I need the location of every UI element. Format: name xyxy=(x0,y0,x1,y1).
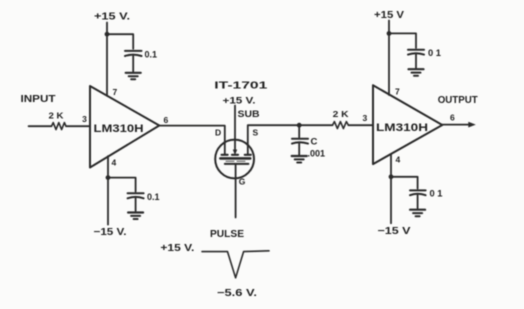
resistor R2 2K xyxy=(333,122,349,129)
wire resistor to pin3 xyxy=(66,125,90,127)
ground (C2) xyxy=(128,213,143,220)
svg-text:6: 6 xyxy=(164,115,169,125)
capacitor C3 .001 xyxy=(292,138,308,140)
svg-text:INPUT: INPUT xyxy=(21,94,56,105)
svg-text:2 K: 2 K xyxy=(49,111,65,121)
wire Q1 source to node xyxy=(248,125,299,154)
svg-text:LM310H: LM310H xyxy=(94,123,144,135)
wire pin4 down xyxy=(107,156,109,224)
svg-text:4: 4 xyxy=(396,155,401,165)
svg-text:+15 V.: +15 V. xyxy=(160,243,194,254)
capacitor C5 0.1 xyxy=(410,189,426,191)
ground (C4) xyxy=(409,69,424,76)
op-amp U1 LM310H xyxy=(90,86,159,168)
svg-text:0 1: 0 1 xyxy=(430,189,443,199)
svg-text:6: 6 xyxy=(450,113,455,123)
wire U1 output to Q1 drain xyxy=(159,126,225,155)
svg-text:−5.6 V.: −5.6 V. xyxy=(217,288,257,299)
svg-text:IT-1701: IT-1701 xyxy=(214,81,268,92)
svg-text:D: D xyxy=(215,128,221,138)
faint line xyxy=(226,160,246,162)
wire V+ branch to C4 xyxy=(389,33,416,48)
svg-text:S: S xyxy=(253,128,259,138)
channel bar xyxy=(220,157,250,160)
svg-text:SUB: SUB xyxy=(238,109,261,119)
wire node to R2 xyxy=(299,124,332,126)
svg-text:+15 V.: +15 V. xyxy=(223,96,256,107)
transistor Q1 body (MOSFET) xyxy=(215,140,254,179)
op-amp U2 LM310H xyxy=(373,85,442,164)
wire gate lead xyxy=(235,164,237,218)
wire node to C3 xyxy=(298,125,300,137)
svg-text:OUTPUT: OUTPUT xyxy=(438,95,478,106)
gate plate xyxy=(225,163,249,165)
capacitor C1 0.1 xyxy=(125,50,142,52)
svg-text:7: 7 xyxy=(395,87,400,97)
svg-text:0 1: 0 1 xyxy=(428,48,441,58)
wire V- branch to C2 xyxy=(108,178,136,192)
node junction dot (U2 V-) xyxy=(389,174,394,179)
svg-text:PULSE: PULSE xyxy=(210,229,244,240)
svg-text:7: 7 xyxy=(113,87,118,97)
capacitor C4 0.1 xyxy=(408,49,424,51)
pulse waveform xyxy=(202,251,269,278)
svg-text:LM310H: LM310H xyxy=(376,122,428,134)
node junction dot (U1 V+) xyxy=(105,32,110,37)
node junction dot (C node) xyxy=(297,123,302,128)
wire V+ branch to C1 xyxy=(107,34,133,49)
ground (C1) xyxy=(126,73,141,80)
svg-text:0.1: 0.1 xyxy=(145,50,158,60)
svg-text:0.1: 0.1 xyxy=(147,192,160,202)
svg-text:C: C xyxy=(311,137,318,148)
wire substrate lead xyxy=(234,106,236,153)
svg-text:3: 3 xyxy=(363,113,368,123)
wire output with arrow xyxy=(442,124,471,126)
svg-text:+15 V.: +15 V. xyxy=(94,12,130,23)
svg-text:−15 V.: −15 V. xyxy=(94,227,127,238)
svg-text:.001: .001 xyxy=(308,149,326,159)
node junction dot (U2 V+) xyxy=(387,31,392,36)
resistor R-in 2K xyxy=(52,123,67,130)
wire pin7 to +15V xyxy=(106,23,108,96)
ground (C3) xyxy=(292,156,307,163)
wire pin4 down xyxy=(390,154,392,223)
ground (C5) xyxy=(410,210,425,217)
capacitor C2 0.1 xyxy=(128,192,144,194)
svg-text:−15 V: −15 V xyxy=(378,226,411,237)
svg-text:+15 V: +15 V xyxy=(374,10,404,21)
svg-text:2 K: 2 K xyxy=(333,109,350,119)
svg-text:G: G xyxy=(239,177,246,187)
wire R2 to pin3 xyxy=(348,124,373,126)
contact dashes xyxy=(222,154,228,156)
svg-text:3: 3 xyxy=(82,114,87,124)
wire pin7 to +15V xyxy=(388,21,390,96)
svg-text:4: 4 xyxy=(112,158,117,168)
wire input lead xyxy=(29,125,52,127)
wire V- branch to C5 xyxy=(391,177,418,189)
node junction dot (U1 V-) xyxy=(106,175,111,180)
